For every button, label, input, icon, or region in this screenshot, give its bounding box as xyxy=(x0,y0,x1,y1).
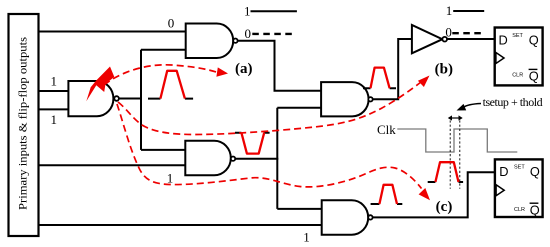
svg-text:0: 0 xyxy=(168,16,175,31)
svg-text:1: 1 xyxy=(167,171,174,186)
lightning bolt xyxy=(86,67,114,102)
svg-text:CLR: CLR xyxy=(514,207,525,213)
red dashed path b xyxy=(118,76,430,135)
svg-text:SET: SET xyxy=(512,33,523,39)
svg-text:tsetup + thold: tsetup + thold xyxy=(483,95,543,109)
setup window dashed line right xyxy=(459,120,461,188)
svg-text:1: 1 xyxy=(303,230,310,245)
nand U1 xyxy=(68,81,113,116)
svg-text:Primary inputs & flip-flop out: Primary inputs & flip-flop outputs xyxy=(16,37,30,210)
svg-text:Q: Q xyxy=(529,32,539,47)
nand U5 xyxy=(322,200,369,234)
red dashed path a xyxy=(104,65,228,85)
svg-text:CLR: CLR xyxy=(512,73,523,79)
wire box to U4 input2 xyxy=(38,164,185,166)
svg-text:0: 0 xyxy=(245,26,252,41)
svg-text:(a): (a) xyxy=(235,61,253,77)
svg-text:Q: Q xyxy=(530,164,540,179)
nand U4 xyxy=(185,141,231,176)
wire U4 output xyxy=(235,158,278,160)
double arrow setup window xyxy=(448,115,463,120)
bubble U1 xyxy=(114,96,119,101)
svg-text:0: 0 xyxy=(445,25,452,40)
setup window dashed line left xyxy=(449,120,451,188)
primary inputs box xyxy=(9,14,39,236)
svg-text:Clk: Clk xyxy=(377,122,396,137)
wire box to U1 input1 xyxy=(38,90,68,92)
pulse P1 after U1 xyxy=(148,71,193,99)
pulse P5 at FF2 input xyxy=(428,162,463,182)
bubble U2 xyxy=(233,39,237,43)
flip-flop FF2 xyxy=(495,159,543,217)
inverted pulse P3 after U4 xyxy=(235,133,270,154)
red dashed path c xyxy=(117,104,430,200)
wire U3 output to inverter xyxy=(373,39,412,99)
svg-text:D: D xyxy=(499,32,508,47)
wire box to U2 input1 xyxy=(38,31,186,33)
wire node to U2 input2 xyxy=(141,49,186,51)
bubble U3 xyxy=(368,97,372,101)
flip-flop FF1 xyxy=(495,28,543,86)
nand U2 xyxy=(186,24,234,59)
wire box to U1 input2 xyxy=(38,108,68,110)
legend value 1 solid top right xyxy=(446,3,484,18)
wire inverter to FF1 xyxy=(447,38,494,40)
wire U5 output to FF2 xyxy=(373,172,496,217)
annotation arrow to window xyxy=(457,104,482,111)
svg-text:1: 1 xyxy=(446,3,453,18)
svg-text:Q: Q xyxy=(530,203,540,218)
svg-text:1: 1 xyxy=(51,74,58,89)
bubble U4 xyxy=(231,157,235,161)
svg-text:D: D xyxy=(499,164,508,179)
wire node to U4 input1 xyxy=(141,149,185,151)
vertical U3 in2 to U5 in1 xyxy=(276,108,278,209)
legend value 1 solid top middle xyxy=(244,4,297,19)
wire U2 output xyxy=(238,41,322,91)
svg-text:1: 1 xyxy=(244,4,251,19)
bubble U5 xyxy=(368,215,372,219)
wire U1 output to node xyxy=(117,98,142,100)
svg-text:SET: SET xyxy=(514,164,525,170)
svg-text:(c): (c) xyxy=(436,199,453,215)
nand U3 xyxy=(321,82,368,116)
legend value 0 dashed after inverter xyxy=(445,25,483,40)
clk waveform xyxy=(397,129,517,152)
inverter U6 xyxy=(412,25,443,53)
legend value 0 dashed after U2 xyxy=(245,26,296,41)
wire to U3 input2 xyxy=(277,107,321,109)
svg-text:1: 1 xyxy=(51,112,58,127)
svg-text:Q: Q xyxy=(529,69,539,84)
pulse P4 after U5 xyxy=(371,185,403,204)
node vertical U1 out xyxy=(140,50,142,150)
bubble inverter xyxy=(442,37,447,42)
svg-text:(b): (b) xyxy=(435,62,453,78)
wire box to U5 input2 xyxy=(38,224,322,226)
wire to U5 input1 xyxy=(277,208,321,210)
pulse P2 after U3 xyxy=(363,68,396,89)
